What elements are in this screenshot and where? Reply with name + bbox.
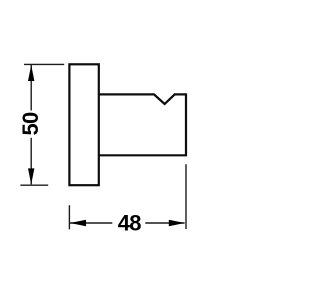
svg-text:48: 48 bbox=[118, 211, 142, 236]
svg-text:50: 50 bbox=[18, 112, 43, 136]
